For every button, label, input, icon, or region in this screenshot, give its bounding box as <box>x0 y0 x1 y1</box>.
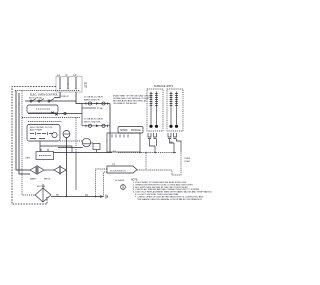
main L1 bus bottom <box>54 151 177 153</box>
wire mid horizontal <box>40 146 72 153</box>
wire lamp drop dashed <box>172 153 181 175</box>
clock / timer box K2 <box>27 125 60 142</box>
wire L2 bus (dashed) <box>22 91 35 196</box>
door lock box <box>25 149 54 160</box>
wire RR return <box>170 139 181 153</box>
TB1 pin N <box>67 77 69 90</box>
svg-text:SPARK: SPARK <box>120 129 128 132</box>
wire banner left dashed <box>96 169 108 197</box>
oven selector switch row <box>25 96 76 102</box>
connector pair right <box>168 133 177 139</box>
svg-text:BROIL: BROIL <box>44 179 51 181</box>
spark module body <box>107 133 140 152</box>
wire spark dashed drop <box>145 152 147 170</box>
wire mid drop <box>75 153 77 191</box>
ground plug symbol <box>121 185 126 190</box>
svg-text:LIGHT: LIGHT <box>184 161 191 163</box>
valve labels <box>30 178 51 181</box>
svg-text:16 GA BK 16 GA W: 16 GA BK 16 GA W <box>84 96 104 99</box>
title ELECTRONIC OVEN CONTROL <box>30 94 59 97</box>
svg-text:ELECTRONIC CLOCK: ELECTRONIC CLOCK <box>30 127 53 129</box>
surface unit element LF <box>149 92 152 128</box>
door switch banner <box>107 164 137 173</box>
svg-text:DOOR SWITCH: DOOR SWITCH <box>110 171 126 173</box>
label P9 terminal block <box>84 83 88 89</box>
surface units label <box>154 85 174 88</box>
convection motor circle <box>82 138 90 146</box>
harness note text <box>113 94 153 105</box>
chassis boundary (outer dashed box) <box>12 87 56 205</box>
svg-text:16 GA BK 16 GA W: 16 GA BK 16 GA W <box>84 118 104 121</box>
wire dashed row B <box>28 121 62 123</box>
svg-text:TB: TB <box>84 86 87 89</box>
TB1 pin L1 <box>59 77 61 90</box>
wire dashed mid row <box>60 140 82 142</box>
bake ignitor row text <box>84 96 104 102</box>
wire motor to bus <box>91 142 93 144</box>
broil gas valve <box>54 165 66 175</box>
TB1 pin L2 <box>75 77 77 90</box>
svg-text:MOTOR: MOTOR <box>37 186 46 188</box>
wire from TB1 L2 down <box>76 92 82 104</box>
wire valve to drop <box>65 169 68 171</box>
svg-text:AND TIMER: AND TIMER <box>30 129 42 132</box>
wire valve link <box>44 169 54 171</box>
wire right column drop <box>109 104 111 153</box>
svg-text:GRN: GRN <box>25 158 30 160</box>
surface unit box right <box>167 89 183 131</box>
chassis arrow connector <box>100 195 108 199</box>
spark module label box <box>118 127 143 134</box>
relay box by motor <box>93 144 100 153</box>
wire from TB1 L1 down <box>54 92 60 98</box>
wire oven light drop <box>66 138 68 197</box>
bake gas valve <box>30 165 44 175</box>
surface unit element LR <box>169 92 172 128</box>
svg-text:MODULE: MODULE <box>131 130 141 132</box>
broil ignitor row text <box>84 118 104 124</box>
svg-text:P2 BK: P2 BK <box>97 108 104 110</box>
svg-text:ELEC. OVEN CONTROL: ELEC. OVEN CONTROL <box>30 94 59 97</box>
wire motor right <box>51 195 100 198</box>
broil ignitor symbols <box>82 124 110 127</box>
junction on N bus <box>18 103 19 104</box>
wire row link vertical <box>81 104 83 126</box>
wire P2 stub <box>82 108 104 110</box>
control boundary (inner dashed top) <box>15 90 80 92</box>
svg-text:SURFACE UNITS: SURFACE UNITS <box>154 85 174 88</box>
connector pair left <box>148 133 157 139</box>
bake ignitor symbols <box>82 102 110 105</box>
svg-text:P8 BK W: P8 BK W <box>60 96 68 98</box>
svg-text:BK W OR BU: BK W OR BU <box>29 97 43 99</box>
surface unit element RF <box>155 92 158 128</box>
svg-text:BROIL IGNITOR: BROIL IGNITOR <box>84 121 101 123</box>
svg-text:BAKE IGNITOR: BAKE IGNITOR <box>84 98 100 101</box>
wire dashed row A <box>22 117 80 119</box>
surface unit element RR <box>175 92 178 128</box>
wire spark module to bus junction <box>139 152 141 154</box>
wire row to spark <box>28 112 82 116</box>
svg-text:THE RANGE SERVICE MANUAL FOR D: THE RANGE SERVICE MANUAL FOR DETAILED IN… <box>137 198 202 201</box>
oven light switch circle <box>63 131 70 138</box>
notes text <box>115 179 212 201</box>
wire N bus <box>19 93 30 174</box>
surface unit box left <box>147 89 163 131</box>
wire to convection motor <box>58 147 83 149</box>
svg-text:OVEN: OVEN <box>184 158 191 160</box>
wire banner to lamp dashed <box>137 169 172 171</box>
wire dashed drop right of motor <box>104 172 108 197</box>
wire LF return <box>150 139 156 153</box>
wire from K2 to door box <box>39 141 41 152</box>
wire dashed L2 drop <box>75 118 77 153</box>
svg-text:N: N <box>66 73 68 77</box>
oven lamp label <box>184 158 191 163</box>
svg-text:ORIGINALLY INSTALLED: ORIGINALLY INSTALLED <box>113 102 138 105</box>
wire RF return <box>154 139 156 153</box>
motor diamond <box>35 184 51 202</box>
svg-text:16 GA BK: 16 GA BK <box>115 179 125 182</box>
svg-text:BAKE: BAKE <box>30 178 36 181</box>
oven control relay box K1 <box>27 105 58 113</box>
wire L1 bus <box>16 91 30 171</box>
wire LR return <box>170 139 175 153</box>
terminal block TB1 <box>56 73 82 92</box>
